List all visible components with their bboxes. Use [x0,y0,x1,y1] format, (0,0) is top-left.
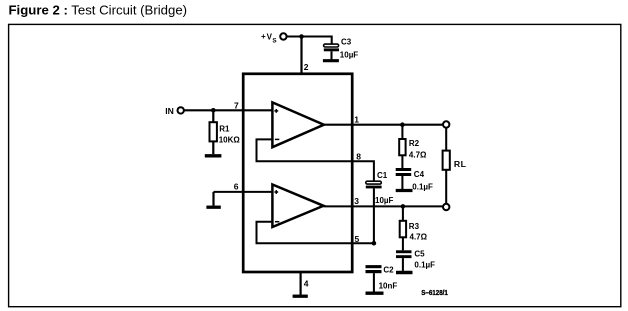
svg-text:S: S [272,37,276,44]
resistor R2 [399,125,405,168]
svg-text:10KΩ: 10KΩ [219,135,241,144]
svg-text:RL: RL [454,159,467,169]
wire op-amp A output pin 1 to output terminal [324,124,443,126]
svg-text:+: + [261,32,266,41]
svg-text:IN: IN [165,106,174,116]
ground bar below R1 [205,154,222,157]
node IN input terminal [165,106,184,116]
wire pin 4 to ground [300,272,302,295]
svg-text:8: 8 [356,152,361,162]
wire IN to op-amp A non-inverting input (pin 7) [184,109,272,111]
junction dot IN / R1 [211,108,216,113]
wire op-amp A inverting input feedback loop to pin 8 and C1 [257,139,374,181]
capacitor C5 [396,250,412,271]
junction dot pin 1 / R2 [400,122,405,127]
junction dot pin 3 / R3 [401,204,406,209]
resistor R1 [210,110,217,154]
junction dot pin 5 / C1 / C2 [372,241,377,246]
svg-text:4.7Ω: 4.7Ω [409,151,427,160]
ground bar below C2 [366,292,384,295]
svg-text:0.1µF: 0.1µF [412,182,433,191]
svg-text:7: 7 [234,101,239,111]
node +VS supply terminal [261,32,287,45]
svg-text:6: 6 [234,182,239,192]
capacitor C2 [366,265,382,291]
node output terminal 2 [443,204,449,210]
ground bar at pin 6 [206,206,220,209]
ground bar below C3 [323,59,339,62]
svg-text:5: 5 [355,234,360,244]
svg-text:C2: C2 [383,266,394,275]
ground bar at pin 4 [293,295,308,298]
svg-text:C3: C3 [341,38,352,47]
ground bar below C5 [396,271,413,274]
wire op-amp B output pin 3 to output terminal 2 [324,205,443,207]
capacitor C4 [396,168,412,189]
svg-text:S–6128/1: S–6128/1 [421,288,448,297]
IC box U1 (TDA2822M) [243,74,352,272]
svg-text:R3: R3 [409,222,420,231]
svg-text:0.1µF: 0.1µF [414,261,435,270]
wire op-amp B inverting input feedback loop to pin 5 [257,222,374,244]
svg-text:C5: C5 [414,250,425,259]
svg-text:R2: R2 [409,139,420,148]
node output terminal 1 [443,121,449,127]
wire pin 6 down to ground [212,192,214,206]
wire +VS junction down to pin 2 [300,37,302,74]
wire +VS terminal to C3 top [287,37,332,44]
capacitor C1 [366,181,382,188]
resistor R3 [400,206,406,250]
wire C1 bottom crossing pin 3 line down to pin 5 node [373,188,375,243]
op-amp A (upper half of U1) [272,102,324,147]
svg-text:2: 2 [304,62,309,72]
svg-text:1: 1 [354,115,359,125]
svg-text:10µF: 10µF [375,196,394,205]
svg-text:Figure 2 : Test Circuit (Bridg: Figure 2 : Test Circuit (Bridge) [9,2,188,17]
svg-text:3: 3 [354,196,359,206]
junction dot at +VS node [299,34,304,39]
capacitor C3 [324,44,339,59]
wire pin 6 to op-amp B non-inverting input [214,191,273,193]
svg-text:4: 4 [304,279,309,289]
svg-text:R1: R1 [219,125,230,134]
resistor RL load [443,128,450,204]
op-amp B (lower half of U1) [272,185,323,228]
svg-text:4.7Ω: 4.7Ω [410,233,428,242]
svg-text:C1: C1 [377,171,388,180]
ground bar below C4 [396,189,413,192]
svg-text:10nF: 10nF [379,282,398,291]
svg-text:C4: C4 [414,170,425,179]
svg-text:10µF: 10µF [340,51,359,60]
